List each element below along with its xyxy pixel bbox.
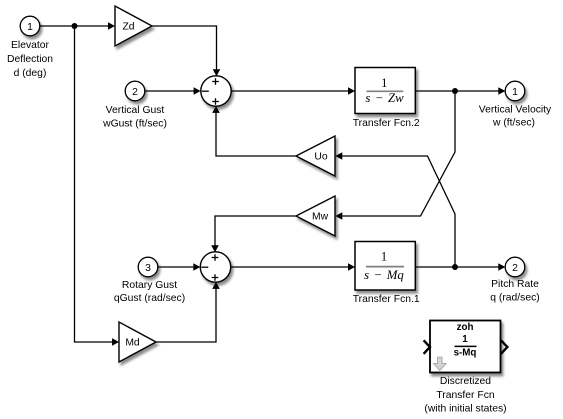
transfer fcn.2 label (353, 118, 420, 129)
wire Transfer Fcn.1 to outport2 (415, 263, 505, 271)
svg-text:w (ft/sec): w (ft/sec) (492, 118, 535, 129)
svg-text:Vertical Velocity: Vertical Velocity (479, 105, 552, 116)
outport 1 label Vertical Velocity w (ft/sec) (479, 105, 552, 129)
svg-text:Mw: Mw (312, 212, 329, 223)
discretized block label (424, 376, 506, 415)
wire junction down to Md (75, 26, 120, 346)
wire Md to sum2 bottom (156, 282, 220, 342)
svg-text:wGust (ft/sec): wGust (ft/sec) (102, 118, 167, 129)
wire sum1 to Transfer Fcn.2 (231, 87, 355, 95)
svg-text:1: 1 (381, 76, 387, 90)
sum Sum1 (201, 76, 231, 106)
inport 3 (138, 257, 158, 277)
svg-text:Pitch Rate: Pitch Rate (491, 279, 539, 290)
outport 2 (505, 257, 525, 277)
wire port3 to sum2 left (158, 263, 201, 271)
outport 2 label Pitch Rate q (rad/sec) (490, 279, 539, 303)
svg-text:zoh: zoh (457, 322, 474, 333)
svg-text:2: 2 (132, 87, 138, 98)
gain Mw (296, 196, 335, 236)
svg-text:3: 3 (145, 263, 151, 274)
junction node q output (452, 264, 458, 270)
inport 2 (125, 81, 145, 101)
svg-text:Discretized: Discretized (440, 376, 491, 387)
svg-text:Vertical Gust: Vertical Gust (106, 105, 165, 116)
svg-text:1: 1 (462, 334, 468, 345)
svg-text:Elevator: Elevator (11, 40, 50, 51)
junction node w output (452, 88, 458, 94)
svg-text:2: 2 (512, 263, 518, 274)
discretized block gray arrow icon (434, 357, 446, 370)
svg-text:(with initial states): (with initial states) (424, 404, 506, 415)
transfer fcn.1 label (353, 294, 420, 305)
inport 1 label Elevator Deflection d (deg) (7, 40, 53, 79)
svg-text:1: 1 (381, 249, 387, 263)
svg-text:1: 1 (27, 22, 33, 33)
svg-text:qGust (rad/sec): qGust (rad/sec) (114, 293, 185, 304)
svg-text:Transfer Fcn: Transfer Fcn (436, 390, 494, 401)
wire port2 to sum1 left (145, 87, 201, 95)
svg-text:s − Mq: s − Mq (364, 268, 404, 282)
wire port1 to Zd (40, 22, 115, 30)
inport 2 label Vertical Gust wGust (ft/sec) (102, 105, 167, 129)
wire Uo to sum1 bottom (212, 106, 296, 156)
transfer fcn Transfer Fcn.1 (355, 242, 415, 291)
gain Zd (115, 6, 152, 46)
inport 3 label Rotary Gust qGust (rad/sec) (114, 280, 185, 304)
wire q junction cross to Uo (335, 152, 455, 267)
svg-text:Deflection: Deflection (7, 54, 53, 65)
gain Md (119, 322, 156, 362)
svg-text:Uo: Uo (314, 152, 327, 163)
svg-text:d (deg): d (deg) (14, 68, 47, 79)
junction node after port1 (72, 23, 78, 29)
inport 1 (20, 16, 40, 36)
outport 1 (505, 81, 525, 101)
svg-text:1: 1 (512, 87, 518, 98)
svg-text:q (rad/sec): q (rad/sec) (490, 292, 539, 303)
svg-text:Transfer Fcn.1: Transfer Fcn.1 (353, 294, 420, 305)
discretized transfer fcn block (430, 321, 501, 373)
discretized block input chevron (424, 340, 430, 354)
sum Sum2 (200, 252, 230, 282)
transfer fcn Transfer Fcn.2 (355, 68, 415, 114)
svg-text:Zd: Zd (122, 22, 134, 33)
svg-text:Transfer Fcn.2: Transfer Fcn.2 (353, 118, 420, 129)
wire Mw to sum2 top (211, 216, 296, 252)
wire Zd to sum1 top (152, 26, 220, 76)
wire Transfer Fcn.2 to outport1 (415, 87, 505, 95)
svg-text:s − Zw: s − Zw (365, 91, 404, 105)
wire sum2 to Transfer Fcn.1 (231, 263, 355, 271)
svg-text:Rotary Gust: Rotary Gust (122, 280, 177, 291)
discretized block output chevron (501, 340, 507, 354)
gain Uo (296, 136, 335, 176)
svg-text:Md: Md (125, 338, 140, 349)
wire w junction cross to Mw (335, 91, 455, 220)
svg-text:s-Mq: s-Mq (454, 348, 477, 359)
